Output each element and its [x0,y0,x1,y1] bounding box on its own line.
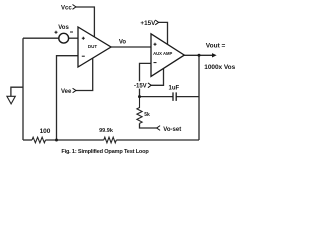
terminal Vee chevron [73,88,76,92]
resistor R2 99.9k [104,137,117,143]
wire: right vertical rail [198,55,200,140]
Vout output arrowhead [212,53,217,57]
junction dot at DUT - node on bottom rail [55,139,58,142]
AUX AMP - input mark [154,62,157,64]
op-amp U1 DUT [78,27,111,67]
junction dot at coupling node [138,95,141,98]
terminal Vo-set chevron [157,126,160,131]
op-amp U2 AUX AMP [151,34,184,77]
svg-text:Fig. 1: Simplified Opamp Test: Fig. 1: Simplified Opamp Test Loop [61,149,149,155]
DUT - input mark [82,55,85,57]
terminal Vcc chevron [73,5,76,10]
wire: bottom rail middle segment [46,139,104,141]
wire: AUX AMP output to Vout arrow [184,54,212,56]
svg-text:Vcc: Vcc [61,5,72,11]
label -15V [133,81,147,88]
wire: AUX AMP - input down to coupling node [140,63,152,96]
AUX AMP + input mark [154,43,157,46]
svg-text:-15V: -15V [134,83,147,89]
wire: Vos source to DUT + input [69,37,78,39]
svg-text:100: 100 [40,128,51,135]
svg-text:Vo-set: Vo-set [163,127,181,133]
wire: Vee terminal to DUT bottom edge [76,58,93,90]
svg-text:5k: 5k [144,112,150,118]
svg-text:1uF: 1uF [169,86,180,92]
capacitor C1 1uF [173,92,176,101]
Vos + polarity mark [55,31,58,34]
resistor R1 100 [32,137,46,143]
wire: DUT - input feedback down to bottom rail [57,56,79,140]
svg-text:1000x Vos: 1000x Vos [204,64,235,71]
wire: ground tap from left rail [11,87,23,96]
junction dot at AUX output [198,54,201,57]
wire: 5k bottom jog to Vo-set terminal [140,123,157,128]
Vos - polarity mark [70,31,73,33]
wire: top wire from left rail to Vos source [23,37,59,39]
svg-text:Vout =: Vout = [206,43,226,50]
svg-text:99.9k: 99.9k [99,128,114,134]
ground [7,96,15,104]
svg-text:Vos: Vos [58,25,69,31]
wire: +15V terminal to AUX AMP top edge [159,22,168,44]
wire: bottom rail left segment [23,139,32,141]
wire: node to capacitor left plate [140,96,174,98]
terminal -15V chevron [148,83,151,88]
wire: bottom rail right segment [116,139,199,141]
wire: Vo from DUT output to AUX AMP + input [111,46,151,48]
wire: Vcc terminal to DUT top edge [76,7,94,37]
svg-text:AUX AMP: AUX AMP [153,51,172,56]
terminal +15V chevron [155,20,158,25]
wire: left vertical rail [22,38,24,140]
svg-text:Vo: Vo [119,40,127,46]
resistor R3 5k [137,97,142,124]
svg-text:DUT: DUT [88,44,97,49]
wire: -15V terminal to AUX AMP bottom edge [151,68,163,85]
source Vos [59,33,69,43]
svg-text:+15V: +15V [140,20,156,27]
svg-text:Vee: Vee [61,89,72,95]
wire: capacitor right plate to right rail [176,96,199,98]
DUT + input mark [82,37,85,40]
